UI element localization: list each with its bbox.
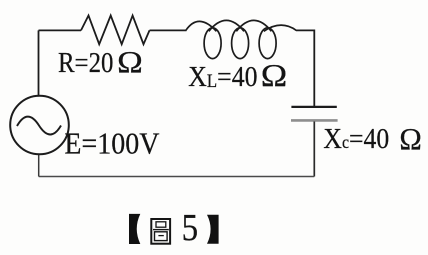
glyph inner top small box (156, 222, 166, 227)
svg-text:Ω: Ω (117, 44, 143, 79)
inductor loop 1 (204, 28, 221, 59)
svg-text:R=20: R=20 (58, 47, 113, 79)
glyph middle horizontal stroke (153, 229, 169, 231)
glyph lower inner tick (158, 235, 163, 237)
resistor R (81, 16, 150, 45)
inductor hump 3 (236, 20, 271, 31)
wire: bottom rail (39, 176, 315, 178)
caption right lenticular bracket (207, 215, 219, 244)
svg-text:Xc=40: Xc=40 (323, 123, 389, 155)
capacitor C top plate (291, 106, 336, 108)
inductor loop 3 (259, 28, 276, 59)
svg-text:E=100V: E=100V (64, 127, 159, 161)
AC source sine symbol (17, 117, 61, 135)
caption left lenticular bracket (129, 214, 140, 244)
wire: top-left corner horizontal segment to resistor (39, 29, 82, 31)
AC source E circle (10, 96, 69, 155)
inductor hump 2 (209, 20, 244, 31)
svg-text:Ω: Ω (261, 57, 288, 93)
wire: between resistor and inductor (150, 29, 187, 31)
wire: left vertical from top corner down to source top (38, 30, 40, 96)
wire: capacitor bottom down to bottom-right corner (313, 122, 315, 177)
capacitor C bottom plate (291, 119, 338, 122)
svg-text:Ω: Ω (399, 121, 421, 156)
inductor loop 2 (232, 28, 249, 59)
glyph lower box (155, 232, 168, 241)
inductor L: three hanging loops (186, 20, 296, 58)
wire: inductor to top-right corner, then down to capacitor (296, 30, 314, 106)
wire: source bottom stub down to bottom rail (38, 155, 40, 177)
caption CJK glyph "tu" (figure) outer box (151, 219, 170, 244)
inductor entry hump (186, 21, 217, 31)
svg-text:5: 5 (182, 207, 199, 249)
inductor exit arc (264, 25, 297, 31)
svg-text:XL=40: XL=40 (188, 62, 257, 93)
